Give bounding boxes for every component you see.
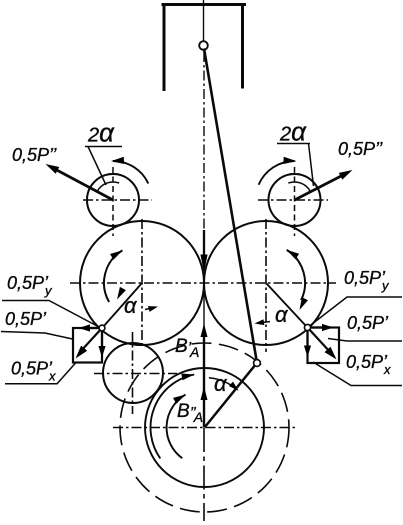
flywheel dashed circle <box>120 343 289 512</box>
top-left gear rotation arc <box>113 161 148 184</box>
label 2-alpha left leader <box>88 147 106 186</box>
top-left gear vertical centerline <box>112 167 114 236</box>
top-right gear rotation arc <box>259 161 295 185</box>
label 0,5P'_y left leader <box>2 301 99 328</box>
2-alpha angle arc left <box>97 182 119 191</box>
right gear crank radius (center to node) <box>266 283 307 327</box>
top-right gear horizontal centerline <box>258 199 328 201</box>
svg-text:α: α <box>124 293 138 318</box>
flywheel outer rotation arrowhead <box>181 374 194 381</box>
label 0,5P' left leader <box>1 332 73 340</box>
svg-text:0,5P’’: 0,5P’’ <box>338 139 383 159</box>
alpha tick arrow right gear <box>261 322 270 323</box>
label 0,5P'_x left leader <box>5 363 76 384</box>
left big gear rotation arc <box>104 250 122 302</box>
force 0,5P'' right shaft <box>295 174 347 201</box>
right big gear rotation arrowhead bottom <box>300 297 309 310</box>
top-right gear rim tick <box>290 173 301 175</box>
crank pin node circle <box>254 360 261 367</box>
bottom-left gear circle <box>103 343 163 403</box>
cylinder top wall <box>162 3 247 6</box>
right big gear vertical centerline <box>265 219 267 352</box>
flywheel outer rotation arc <box>151 375 195 459</box>
force 0,5P' right arrow <box>308 328 332 354</box>
top-right gear vertical centerline <box>294 167 296 236</box>
label 2-alpha left underline <box>85 146 122 148</box>
cylinder left wall <box>163 3 166 91</box>
label 0,5P' right leader <box>328 339 402 342</box>
svg-text:0,5P’: 0,5P’ <box>5 309 47 329</box>
svg-text:0,5P’’: 0,5P’’ <box>12 145 57 165</box>
top-left gear rim tick <box>108 173 119 175</box>
top-right balance gear circle <box>269 174 321 226</box>
force 0,5P'_y right arrow <box>308 326 327 328</box>
bottom-left gear horizontal centerline <box>94 373 177 375</box>
force 0,5P'_x right arrow <box>306 328 308 348</box>
force B''_A head <box>201 387 208 401</box>
bottom-left gear vertical centerline <box>132 332 134 414</box>
top-left gear rotation arrowhead <box>111 157 124 164</box>
cylinder axis centerline (top stub) <box>203 0 205 42</box>
flywheel vertical centerline below <box>203 428 205 521</box>
flywheel solid circle <box>145 368 264 487</box>
cylinder right wall <box>241 3 244 89</box>
force 0,5P'' left shaft <box>52 168 113 201</box>
gas force arrow P head <box>200 255 207 273</box>
main vertical force line <box>203 283 205 428</box>
label 2-alpha right leader <box>309 144 314 187</box>
cylinder axis centerline (dash-dot below pin) <box>203 52 205 232</box>
force 0,5P'_y left arrow <box>84 327 102 329</box>
alpha tick arrow left gear <box>145 308 152 310</box>
left gear crank radius (center to node) <box>103 283 142 327</box>
2-alpha angle arc right <box>288 182 310 191</box>
svg-text:α: α <box>214 371 228 396</box>
label 0,5P'_x right leader <box>313 362 402 386</box>
force 0,5P'' left head <box>46 164 60 174</box>
force B'_A shaft <box>203 330 205 428</box>
force 0,5P' left arrow <box>80 328 102 352</box>
right big gear rotation arc <box>287 250 305 300</box>
alpha angle arc flywheel <box>209 378 235 388</box>
right gear rim node circle <box>304 324 310 330</box>
left big gear circle <box>80 221 204 345</box>
alpha angle arrowhead flywheel <box>229 382 239 391</box>
right force parallelogram <box>308 328 340 364</box>
left big gear vertical centerline <box>141 219 143 346</box>
top-left gear horizontal centerline <box>83 199 152 201</box>
left big gear rotation arrowhead top <box>110 250 122 259</box>
flywheel horizontal centerline <box>113 427 296 429</box>
horizontal centerline through big gear centers <box>70 282 336 284</box>
left big gear rotation arrowhead bottom <box>117 287 126 300</box>
flywheel inner rotation arrowhead <box>173 395 186 404</box>
right big gear rotation arrowhead top <box>287 250 299 260</box>
top-right gear rotation arrowhead <box>283 157 296 164</box>
top-left balance gear circle <box>87 174 139 226</box>
svg-text:α: α <box>275 302 289 327</box>
right big gear circle <box>204 221 328 345</box>
label 0,5P'_y right leader <box>310 297 403 326</box>
force B'_A head <box>201 324 208 338</box>
connecting rod (piston pin to crank pin) <box>204 49 257 364</box>
left gear rim node circle <box>99 325 105 331</box>
gas force arrow P shaft <box>203 230 205 262</box>
flywheel inner rotation arc <box>167 395 186 459</box>
left force parallelogram <box>73 328 102 363</box>
piston pin circle <box>199 41 208 50</box>
force 0,5P'' right head <box>339 170 353 180</box>
crank web (center to crank pin) <box>205 364 257 428</box>
svg-text:0,5P’: 0,5P’ <box>347 313 389 333</box>
label 2-alpha right underline <box>277 143 310 145</box>
force 0,5P'_x left arrow <box>101 328 103 348</box>
